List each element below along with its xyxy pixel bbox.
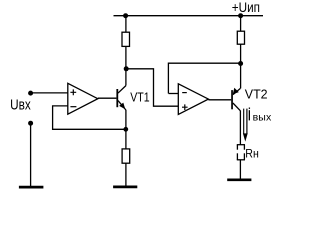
svg-text:VT2: VT2: [245, 86, 268, 101]
svg-text:+Uип: +Uип: [232, 0, 260, 15]
svg-text:вых: вых: [253, 112, 272, 124]
svg-text:Rн: Rн: [245, 147, 258, 161]
svg-text:VT1: VT1: [130, 91, 149, 105]
svg-text:Uвх: Uвх: [10, 98, 31, 114]
